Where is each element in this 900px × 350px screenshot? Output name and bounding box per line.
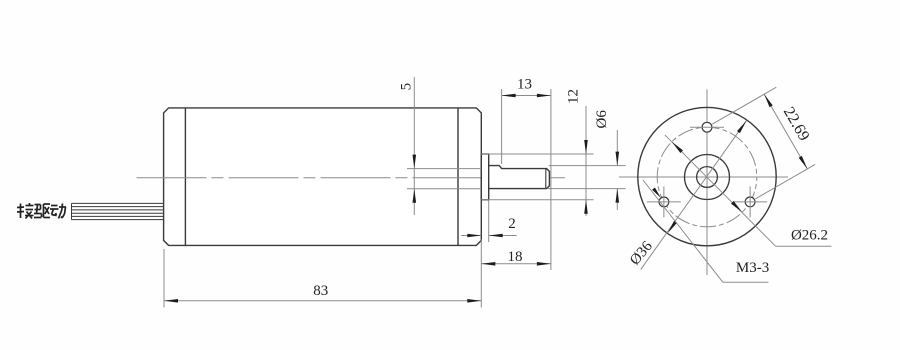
dimension 83 line [164,299,481,303]
mounting hole M3 lower-left [659,197,669,207]
flat extension line lower [407,188,481,190]
svg-text:83: 83 [313,283,328,299]
dimension Ø6 extension bottom [548,188,626,190]
dimension Ø26.2 line and leader [665,135,832,247]
dimension 2 line [461,234,517,238]
dimension 13 extension left [501,89,503,164]
M3-3 leader [643,180,768,282]
svg-text:M3-3: M3-3 [736,260,769,276]
label 接驱动 (connect to driver) [17,203,66,219]
flat extension line upper [407,168,481,170]
dimension 18 line [481,262,551,266]
svg-text:12: 12 [566,89,582,104]
svg-text:18: 18 [508,249,523,265]
front view outer circle (Ø36) [638,107,776,245]
mounting hole M3 lower-right [745,197,755,207]
dimension 12 extension top [481,153,593,155]
dimension 22.69 extension lines [712,87,776,124]
right end-cap line [457,108,459,246]
svg-text:13: 13 [517,77,532,93]
dimension Ø36 line and leader [641,121,747,270]
dimension 5 line [413,77,417,215]
shaft circle Ø6 [697,167,718,188]
svg-text:Ø26.2: Ø26.2 [791,228,828,244]
dimension 12 line [584,106,588,216]
front view vertical centerline [706,89,708,275]
motor body (side view) [164,108,482,246]
dimension 18 extension left [480,240,482,308]
dimension 22.69 line [764,94,807,169]
left end-cap line [184,108,186,246]
dimension Ø6 line [616,130,620,210]
svg-text:Ø6: Ø6 [594,110,610,129]
axis centerline [137,177,566,179]
dimension 83 extension left [163,249,165,308]
svg-text:2: 2 [508,216,516,232]
dimension 2 extension right [488,200,490,242]
dimension Ø6 extension top [549,165,626,167]
dimension 12 extension bottom [481,199,593,201]
shaft end chamfer line [545,169,547,189]
boss circle Ø12 [685,155,730,200]
output shaft (with flat) [489,166,550,189]
svg-text:5: 5 [398,83,414,91]
front view horizontal centerline [619,176,788,178]
shaft boss [481,154,488,200]
dimension 13 line [502,94,551,98]
lead wire bundle [72,203,164,219]
mounting hole M3 top [702,122,712,132]
dimension 13 extension right / shaft end [550,89,552,270]
bolt circle Ø26.2 (dash-dot) [657,127,757,227]
